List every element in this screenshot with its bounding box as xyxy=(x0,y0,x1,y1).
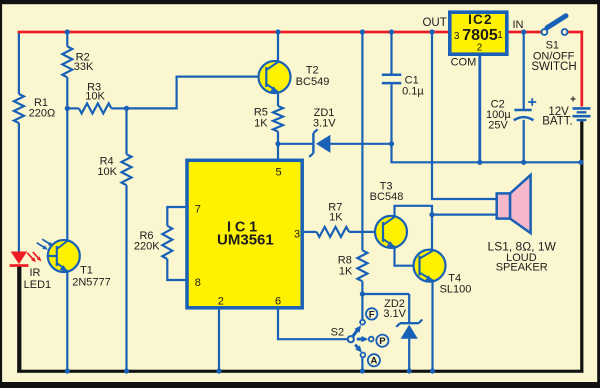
svg-text:3: 3 xyxy=(454,31,460,42)
svg-text:3.1V: 3.1V xyxy=(313,118,336,130)
svg-text:IN: IN xyxy=(513,19,524,31)
svg-text:220K: 220K xyxy=(134,241,160,253)
svg-text:SL100: SL100 xyxy=(440,284,472,296)
svg-text:2N5777: 2N5777 xyxy=(72,277,111,289)
svg-text:SPEAKER: SPEAKER xyxy=(496,262,548,274)
svg-text:10K: 10K xyxy=(85,91,105,103)
svg-text:220Ω: 220Ω xyxy=(29,108,56,120)
svg-text:2: 2 xyxy=(218,296,224,308)
svg-text:BATT.: BATT. xyxy=(542,115,572,127)
svg-text:LS1, 8Ω, 1W: LS1, 8Ω, 1W xyxy=(488,240,557,254)
svg-text:BC548: BC548 xyxy=(370,191,404,203)
svg-text:COM: COM xyxy=(451,56,477,68)
svg-text:3.1V: 3.1V xyxy=(383,308,406,320)
svg-text:SWITCH: SWITCH xyxy=(531,61,576,73)
svg-text:25V: 25V xyxy=(488,120,508,132)
svg-text:6: 6 xyxy=(275,296,281,308)
svg-text:T2: T2 xyxy=(306,65,319,77)
svg-text:T1: T1 xyxy=(80,265,93,277)
svg-text:8: 8 xyxy=(195,277,201,289)
svg-text:1: 1 xyxy=(497,30,503,41)
svg-text:2: 2 xyxy=(477,43,483,54)
svg-text:1K: 1K xyxy=(329,211,343,223)
svg-text:33K: 33K xyxy=(74,61,94,73)
svg-text:BC549: BC549 xyxy=(296,76,330,88)
svg-text:A: A xyxy=(370,356,377,367)
svg-text:UM3561: UM3561 xyxy=(217,232,274,249)
svg-text:IR: IR xyxy=(30,267,41,279)
svg-text:+: + xyxy=(570,95,576,106)
svg-text:1K: 1K xyxy=(254,117,268,129)
svg-text:3: 3 xyxy=(294,229,300,241)
svg-text:P: P xyxy=(379,336,386,347)
svg-text:1K: 1K xyxy=(339,266,353,278)
svg-text:5: 5 xyxy=(276,167,282,179)
svg-text:R8: R8 xyxy=(338,254,352,266)
svg-text:OUT: OUT xyxy=(422,17,446,29)
svg-text:0.1µ: 0.1µ xyxy=(402,86,424,98)
svg-text:S2: S2 xyxy=(331,327,344,339)
svg-text:IC2: IC2 xyxy=(468,12,493,27)
svg-text:LED1: LED1 xyxy=(24,279,52,291)
svg-text:7: 7 xyxy=(195,204,201,216)
svg-text:F: F xyxy=(369,309,375,320)
svg-text:10K: 10K xyxy=(97,166,117,178)
